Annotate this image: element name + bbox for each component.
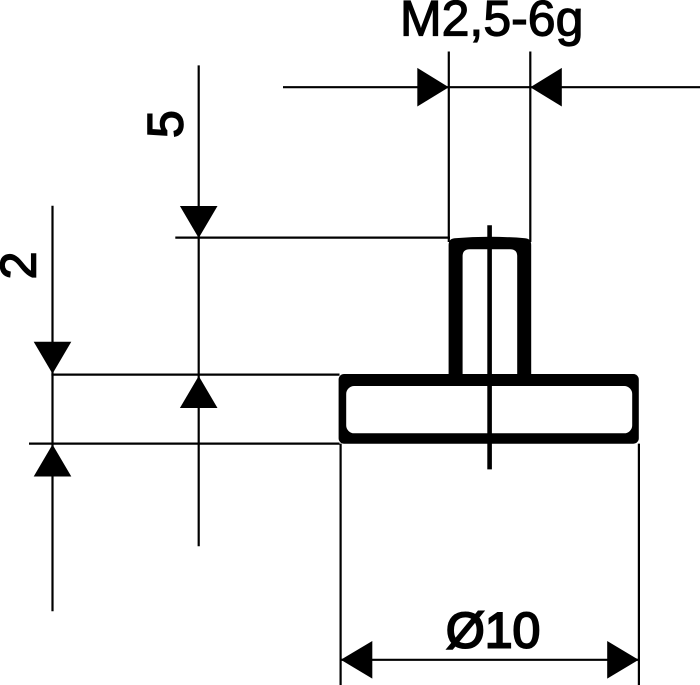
extension line flange top — [51, 374, 339, 376]
threaded stud inner face (white) — [463, 249, 518, 374]
threaded stud outer contour — [449, 237, 532, 374]
dimension line 2 (vertical) — [51, 206, 53, 612]
flange disc inner face (white) — [346, 386, 632, 433]
extension line stem top — [175, 237, 450, 239]
arrow down-pointing at flange top — [34, 342, 72, 374]
extension line diameter left — [340, 444, 342, 685]
svg-text:2: 2 — [0, 252, 46, 280]
dimension line M2,5 — [283, 86, 700, 88]
dimension line 5 (vertical) — [198, 65, 200, 546]
centerline — [487, 225, 492, 469]
svg-text:M2,5-6g: M2,5-6g — [400, 0, 583, 47]
arrow right-pointing at disc right — [607, 641, 639, 679]
extension line flange bottom — [29, 443, 340, 445]
arrow right-pointing at stem left — [417, 68, 449, 107]
arrow left-pointing at stem right — [530, 68, 562, 107]
svg-text:Ø10: Ø10 — [446, 602, 541, 658]
extension line diameter right — [638, 444, 640, 685]
arrow left-pointing at disc left — [341, 641, 373, 679]
flange disc outer contour — [339, 374, 639, 444]
arrow down-pointing at stem top — [180, 206, 218, 238]
extension line right (stem right edge) — [529, 52, 531, 243]
arrow up-pointing at flange bottom — [34, 445, 72, 477]
dimension line diameter — [341, 659, 638, 661]
svg-text:5: 5 — [137, 110, 193, 138]
arrow up-pointing at flange top — [180, 376, 218, 408]
extension line left (stem left edge) — [448, 52, 450, 243]
